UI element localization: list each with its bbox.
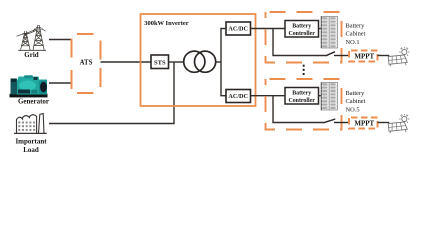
wire branch junction 1 to switch 1 — [273, 29, 326, 56]
ATS enclosure (dashed) — [72, 34, 101, 93]
wire bus to AC/DC 2 — [220, 95, 226, 97]
battery controller 2 — [285, 88, 319, 105]
svg-text:Battery: Battery — [346, 22, 366, 29]
wire branch junction 2 to switch 2 — [273, 96, 324, 123]
MPPT 2 (dashed box) — [349, 118, 378, 129]
svg-text:NO.5: NO.5 — [346, 106, 360, 113]
svg-text:AC/DC: AC/DC — [228, 93, 248, 100]
grid icon (transmission towers) — [17, 26, 46, 51]
svg-text:STS: STS — [154, 59, 166, 66]
important load icon (factory) — [14, 114, 47, 134]
DC bus vertical — [220, 29, 222, 96]
svg-text:NO.1: NO.1 — [346, 39, 360, 46]
wire grid to ATS — [49, 39, 72, 41]
generator icon (diesel genset) — [10, 75, 48, 97]
wire AC/DC 2 to battery controller 2 — [251, 95, 286, 97]
MPPT 1 (dashed box) — [349, 51, 378, 62]
wire controller 1 to battery cabinet 1 — [319, 28, 322, 30]
svg-text:MPPT: MPPT — [354, 119, 374, 127]
battery controller 1 — [285, 21, 319, 38]
wire STS to transformer — [169, 61, 184, 63]
switch S2 — [323, 119, 349, 123]
switch S1 — [326, 52, 349, 56]
battery cabinet 1 (rack) — [321, 17, 338, 49]
AC/DC converter 2 — [226, 90, 251, 103]
svg-text:Load: Load — [23, 146, 39, 154]
STS box — [151, 55, 169, 69]
svg-text:Battery: Battery — [292, 24, 311, 30]
svg-text:Cabinet: Cabinet — [346, 98, 366, 105]
wire controller 2 to battery cabinet 2 — [319, 95, 322, 97]
battery group 1 enclosure (dashed) — [266, 12, 342, 63]
svg-text:Generator: Generator — [18, 97, 49, 105]
svg-text:Important: Important — [15, 138, 47, 146]
wire transformer to bus — [216, 61, 221, 63]
wire AC/DC 1 to battery controller 1 — [251, 28, 286, 30]
battery group 2 enclosure (dashed) — [266, 79, 342, 130]
transformer T1 — [184, 51, 216, 72]
wire ATS to STS — [101, 61, 152, 63]
ellipsis dots between groups — [303, 65, 305, 75]
svg-text:Grid: Grid — [24, 51, 38, 59]
svg-text:ATS: ATS — [80, 59, 93, 66]
AC/DC converter 1 — [226, 22, 251, 35]
wire MPPT 1 to PV panel 1 — [378, 55, 390, 57]
battery cabinet 2 (rack) — [321, 83, 338, 111]
svg-text:Controller: Controller — [288, 31, 315, 37]
PV panel 1 with sun — [388, 47, 409, 67]
wire important load to inverter — [49, 62, 174, 124]
inverter enclosure (300kW Inverter) — [141, 14, 256, 106]
svg-text:MPPT: MPPT — [354, 52, 374, 60]
svg-text:Battery: Battery — [292, 91, 311, 97]
svg-text:300kW Inverter: 300kW Inverter — [144, 20, 189, 27]
svg-text:Controller: Controller — [288, 98, 315, 104]
wire MPPT 2 to PV panel 2 — [378, 122, 390, 124]
wire bus to AC/DC 1 — [220, 28, 226, 30]
svg-text:Cabinet: Cabinet — [346, 31, 366, 38]
svg-text:Battery: Battery — [346, 90, 366, 97]
wire generator to ATS — [49, 82, 72, 84]
svg-text:AC/DC: AC/DC — [228, 26, 248, 33]
PV panel 2 with sun — [388, 114, 409, 133]
